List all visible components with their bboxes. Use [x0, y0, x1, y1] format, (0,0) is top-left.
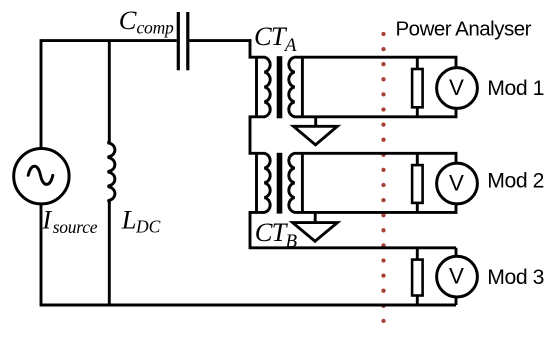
wire Mod 2 bottom (CT_B secondary bottom) [295, 201, 456, 213]
svg-text:Isource: Isource [41, 205, 97, 238]
transformer CT_B primary winding coil [264, 153, 270, 212]
svg-text:Mod 3: Mod 3 [487, 266, 544, 289]
current source sine symbol [28, 166, 53, 184]
svg-text:V: V [449, 75, 464, 100]
wire left rail upper segment [40, 39, 43, 149]
inductor L_DC bottom lead wire [108, 201, 111, 305]
inductor L_DC top lead wire [108, 41, 111, 143]
wire Mod 1 bottom (CT_A secondary bottom) [295, 105, 456, 117]
current source I_source circle [14, 149, 69, 204]
svg-text:V: V [449, 264, 464, 289]
transformer CT_A core bar [277, 56, 283, 118]
resistor R1 (Mod 1 burden resistor) leads [416, 57, 419, 117]
transformer CT_B secondary winding coil [289, 153, 295, 212]
svg-text:Mod 2: Mod 2 [487, 170, 544, 193]
capacitor C_comp plates [178, 12, 188, 70]
resistor R1 (Mod 1 burden resistor) body [412, 69, 423, 107]
ground CT_B secondary: triangle [293, 223, 338, 242]
transformer CT_A primary back lead line [255, 57, 258, 117]
wire Mod 1 top (CT_A secondary top to voltmeter V1) [295, 57, 456, 69]
wire top rail from C_comp right plate to CT primary trunk [189, 39, 251, 42]
ground CT_A secondary: triangle [294, 126, 338, 145]
wire left rail lower segment [40, 203, 43, 305]
transformer CT_B secondary back lead line [301, 153, 304, 212]
inductor L_DC coil [109, 142, 115, 202]
svg-text:CTA: CTA [254, 21, 297, 56]
resistor R3 (Mod 3 shunt resistor) body [412, 260, 423, 296]
resistor R3 (Mod 3 shunt resistor) leads [416, 248, 419, 305]
transformer CT_B primary back lead line [255, 153, 258, 212]
voltmeter V2 circle [437, 163, 478, 204]
wire bottom rail (source bottom along to Mod 3) [40, 304, 456, 307]
svg-text:Mod 1: Mod 1 [487, 77, 544, 100]
voltmeter V3 circle [437, 256, 478, 297]
transformer CT_B core bar [277, 153, 283, 214]
wire top rail from source to C_comp left plate [41, 39, 177, 42]
ground CT_B secondary: stub [314, 212, 317, 221]
wire trunk: CT_B primary bottom down to Mod 3 top wire [250, 212, 456, 247]
resistor R2 (Mod 2 burden resistor) leads [416, 153, 419, 212]
wire Mod 3 drops into voltmeter V3 [455, 248, 458, 305]
wire trunk: CT_A primary bottom to CT_B primary top [250, 117, 264, 154]
svg-text:Ccomp: Ccomp [119, 5, 174, 38]
transformer CT_A secondary back lead line [301, 57, 304, 117]
svg-text:LDC: LDC [121, 205, 161, 237]
resistor R2 (Mod 2 burden resistor) body [412, 165, 423, 203]
wire trunk: top rail down to CT_A primary top [250, 39, 264, 57]
transformer CT_A secondary winding coil [289, 57, 295, 117]
wire Mod 2 top (CT_B secondary top) [295, 153, 456, 164]
svg-text:V: V [449, 170, 464, 195]
svg-text:Power Analyser: Power Analyser [396, 17, 532, 40]
transformer CT_A primary winding coil [264, 57, 270, 117]
voltmeter V1 circle [437, 68, 478, 109]
ground CT_A secondary: stub [314, 117, 317, 125]
boundary: Power Analyser dotted separator line [381, 32, 385, 323]
